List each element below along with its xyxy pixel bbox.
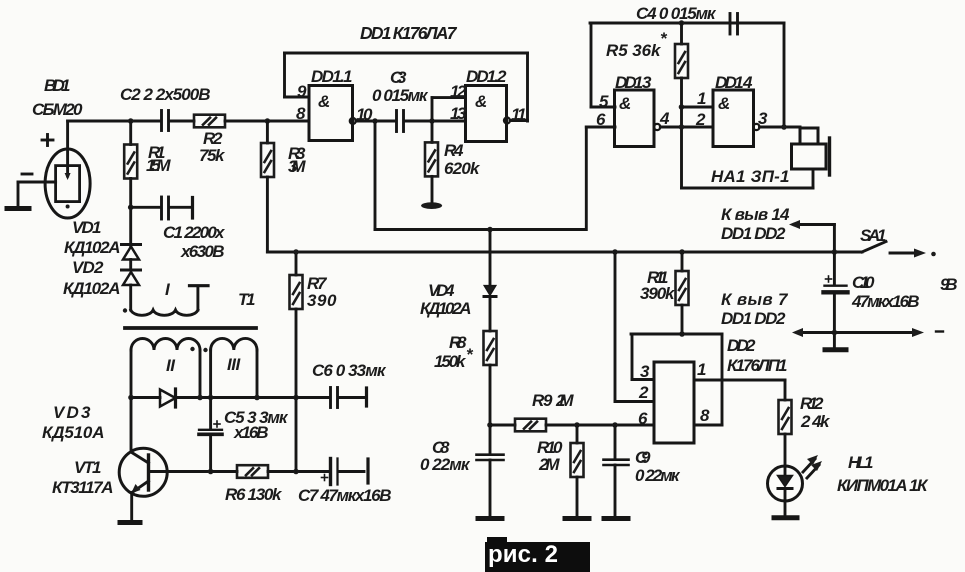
svg-text:6: 6	[638, 409, 648, 428]
svg-text:С7 47мкх16В: С7 47мкх16В	[298, 486, 391, 505]
svg-text:КД102А: КД102А	[63, 279, 120, 298]
svg-text:0 22мк: 0 22мк	[635, 466, 681, 485]
svg-text:9В: 9В	[940, 275, 957, 294]
svg-text:Т1: Т1	[238, 290, 255, 309]
svg-text:2: 2	[638, 383, 649, 402]
svg-text:DD1.1: DD1.1	[311, 67, 352, 86]
svg-text:1: 1	[697, 89, 706, 108]
svg-text:DD1 4: DD1 4	[715, 73, 753, 92]
svg-text:390: 390	[307, 291, 337, 310]
svg-text:СБМ20: СБМ20	[32, 100, 83, 119]
svg-text:11: 11	[511, 105, 526, 124]
svg-text:12: 12	[450, 82, 467, 101]
svg-text:SA1: SA1	[860, 226, 886, 245]
svg-text:К выв 14: К выв 14	[721, 205, 790, 224]
svg-text:*: *	[466, 345, 474, 364]
svg-text:НА1 ЗП-1: НА1 ЗП-1	[711, 167, 789, 186]
svg-text:R6 130k: R6 130k	[225, 485, 283, 504]
svg-text:2: 2	[695, 110, 706, 129]
svg-text:DD1 К176ЛА7: DD1 К176ЛА7	[360, 23, 458, 43]
svg-text:3: 3	[640, 362, 650, 381]
svg-text:390k: 390k	[640, 284, 676, 303]
svg-text:КИПМ01А 1К: КИПМ01А 1К	[837, 476, 929, 495]
svg-text:9: 9	[297, 82, 307, 101]
svg-text:4: 4	[659, 109, 670, 128]
svg-text:3: 3	[758, 109, 768, 128]
svg-text:10: 10	[356, 105, 373, 124]
svg-text:75k: 75k	[199, 146, 226, 165]
svg-text:КД102А: КД102А	[420, 299, 471, 318]
svg-text:R4: R4	[444, 141, 464, 160]
svg-text:8: 8	[700, 406, 710, 425]
svg-text:С4 0 015мк: С4 0 015мк	[636, 4, 717, 23]
svg-text:DD1.2: DD1.2	[466, 67, 507, 86]
svg-text:х630В: х630В	[180, 242, 224, 261]
svg-text:С3: С3	[390, 68, 407, 87]
svg-text:3М: 3М	[288, 157, 306, 176]
svg-text:&: &	[619, 94, 631, 113]
svg-text:6: 6	[596, 110, 606, 129]
svg-text:С10: С10	[852, 273, 875, 292]
svg-text:0 22мк: 0 22мк	[420, 455, 471, 474]
svg-text:VD1: VD1	[72, 218, 101, 237]
svg-text:&: &	[318, 92, 330, 111]
svg-text:5: 5	[599, 92, 609, 111]
svg-text:150k: 150k	[434, 352, 467, 371]
svg-text:II: II	[166, 356, 176, 375]
svg-text:8: 8	[296, 104, 306, 123]
svg-text:VD2: VD2	[72, 258, 104, 277]
svg-text:2 4k: 2 4k	[800, 412, 831, 431]
svg-text:VT1: VT1	[74, 458, 101, 477]
svg-text:С2 2 2х500В: С2 2 2х500В	[120, 85, 210, 104]
svg-text:1: 1	[697, 360, 706, 379]
svg-text:R12: R12	[800, 394, 824, 413]
svg-text:HL1: HL1	[848, 453, 873, 472]
svg-text:К выв 7: К выв 7	[721, 290, 789, 309]
svg-text:&: &	[718, 94, 730, 113]
svg-text:620k: 620k	[444, 159, 481, 178]
svg-text:BD1: BD1	[44, 76, 70, 95]
svg-text:С1 2200х: С1 2200х	[163, 223, 226, 242]
svg-text:VD4: VD4	[428, 281, 455, 300]
svg-text:0 015мк: 0 015мк	[372, 86, 429, 105]
svg-text:R8: R8	[449, 333, 467, 352]
svg-text:DD2: DD2	[727, 336, 756, 355]
svg-text:2М: 2М	[555, 391, 574, 410]
svg-text:КТ3117А: КТ3117А	[52, 478, 113, 497]
svg-text:КД510А: КД510А	[42, 423, 104, 442]
svg-text:рис. 2: рис. 2	[488, 541, 558, 568]
svg-text:DD1 DD2: DD1 DD2	[721, 309, 786, 328]
svg-text:&: &	[475, 92, 487, 111]
svg-text:К176ЛП1: К176ЛП1	[727, 356, 787, 375]
svg-text:13: 13	[450, 104, 467, 123]
svg-text:С6 0 33мк: С6 0 33мк	[312, 361, 387, 380]
svg-text:С9: С9	[635, 448, 651, 467]
svg-text:15М: 15М	[146, 156, 171, 175]
svg-text:I: I	[165, 280, 171, 299]
svg-text:КД102А: КД102А	[64, 238, 120, 257]
svg-text:*: *	[660, 29, 668, 48]
svg-text:VD3: VD3	[53, 403, 91, 422]
svg-text:R5 36k: R5 36k	[606, 41, 662, 60]
svg-text:R9: R9	[532, 391, 553, 410]
svg-text:2М: 2М	[538, 455, 560, 474]
svg-text:х16В: х16В	[233, 423, 268, 442]
svg-text:47мкх16В: 47мкх16В	[851, 292, 919, 311]
svg-text:DD1 DD2: DD1 DD2	[721, 224, 786, 243]
svg-text:DD1 3: DD1 3	[615, 73, 652, 92]
svg-text:III: III	[227, 355, 241, 374]
